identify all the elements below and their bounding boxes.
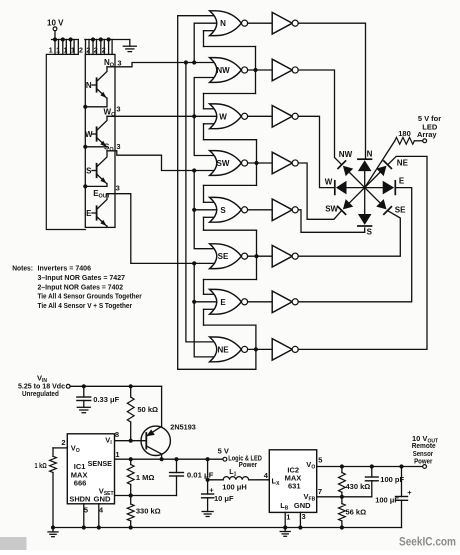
wire S0 to SW gate bottom input [107, 151, 218, 171]
svg-text:NW: NW [339, 150, 353, 159]
svg-text:+: + [407, 488, 412, 497]
svg-text:100 μH: 100 μH [222, 482, 247, 491]
svg-text:3: 3 [117, 58, 121, 67]
svg-text:5: 5 [318, 456, 322, 465]
wire 10V to bus [54, 31, 56, 40]
phototransistor E sensor [96, 206, 98, 219]
svg-text:5: 5 [84, 506, 88, 515]
svg-text:W: W [219, 112, 227, 121]
svg-text:NE: NE [397, 158, 409, 167]
wire IC2 grounds [284, 512, 286, 527]
inverter SW [248, 162, 273, 164]
wire S0 to S mid input and SE top input [194, 171, 217, 249]
wire SW out to W bottom input [204, 139, 257, 141]
capacitor 0.33uF [83, 386, 85, 397]
svg-text:1: 1 [49, 48, 53, 55]
wire IC1 pin5 pin4 to ground rail [83, 504, 85, 528]
svg-text:E: E [86, 209, 92, 218]
ground IC2 [284, 528, 286, 532]
wire LED common to resistor 180 [365, 141, 395, 188]
wire S emitter to rail [85, 184, 107, 187]
svg-text:S: S [86, 166, 92, 175]
svg-text:666: 666 [74, 478, 87, 487]
resistor 50k [130, 386, 132, 397]
svg-text:N: N [86, 81, 92, 90]
wire S inverter to LED S [298, 210, 365, 233]
wire VSET row [115, 495, 177, 497]
svg-text:Power: Power [239, 460, 257, 469]
LED E [365, 187, 383, 189]
wire N inverter to LED N [298, 23, 365, 159]
LED NW [349, 172, 364, 187]
inverter SE [248, 255, 273, 257]
ground top-right [123, 45, 136, 47]
wire sensor pin ticks group 2 [85, 40, 87, 55]
inverter N [248, 22, 273, 24]
svg-text:Array: Array [417, 130, 437, 139]
svg-text:Tie All 4 Sensor V + S Togethe: Tie All 4 Sensor V + S Together [38, 301, 133, 310]
svg-text:1: 1 [286, 512, 290, 521]
NOR gate NW [210, 58, 242, 83]
NOR gate NE [210, 337, 242, 362]
resistor 1M [130, 459, 132, 464]
wire W0 down to SW top input [194, 116, 217, 155]
wire W0 up to NW bottom input [194, 78, 217, 117]
NOR gate W [210, 104, 242, 129]
wire bottom ground rail [53, 527, 402, 529]
wire NW out to N bottom input [204, 46, 256, 48]
wire EOUT to SE gate bottom input [107, 194, 218, 264]
svg-text:330 kΩ: 330 kΩ [136, 507, 161, 516]
LED S [364, 188, 366, 214]
svg-text:SE: SE [395, 206, 406, 215]
wire SW inverter to LED SW [298, 163, 341, 219]
svg-text:1: 1 [71, 48, 75, 55]
svg-text:2: 2 [102, 48, 106, 55]
wire E inverter to LED E [298, 188, 412, 302]
wire W0 to W gate mid input [107, 115, 218, 117]
wire ground bus [85, 39, 130, 41]
watermark corner [0, 537, 27, 550]
svg-text:0.33 μF: 0.33 μF [93, 395, 119, 404]
svg-text:56 kΩ: 56 kΩ [346, 507, 367, 516]
phototransistor S sensor [96, 164, 98, 177]
svg-text:430 kΩ: 430 kΩ [346, 482, 371, 491]
svg-text:1 MΩ: 1 MΩ [136, 473, 155, 482]
wire NW out to W top input [204, 93, 256, 95]
inverter S [248, 209, 273, 211]
svg-text:631: 631 [288, 482, 301, 491]
LED SW [349, 188, 364, 203]
wire NE out to E bottom input [204, 324, 256, 326]
capacitor 100pF [371, 467, 373, 478]
wire E emitter to box bottom [106, 226, 108, 227]
svg-text:7: 7 [318, 487, 322, 496]
wire EOUT to E mid input and NE bottom input [194, 263, 217, 357]
svg-text:SE: SE [218, 252, 229, 261]
capacitor 0.01uF [176, 459, 178, 472]
ground 0.33uF [77, 406, 90, 408]
svg-text:2: 2 [79, 48, 83, 55]
wire SW out to S top input [204, 184, 257, 186]
wire pin2 to 1k [53, 447, 67, 449]
wire outer sensor return box [46, 54, 85, 229]
svg-text:SHDN: SHDN [69, 495, 90, 504]
terminal 10V [53, 27, 57, 31]
IC U1 MAX666 [67, 434, 114, 504]
svg-text:GND: GND [94, 495, 112, 504]
svg-text:3–Input NOR Gates = 7427: 3–Input NOR Gates = 7427 [38, 273, 126, 282]
svg-text:3: 3 [302, 512, 306, 521]
terminal 5V LED array [423, 139, 427, 143]
capacitor 10uF [207, 480, 209, 494]
inductor L1 100uH [223, 477, 248, 480]
svg-text:N: N [220, 19, 226, 28]
svg-text:1 kΩ: 1 kΩ [35, 461, 47, 470]
wire SW output feedback vertical [256, 140, 258, 186]
wire SE inverter to LED SE [298, 211, 400, 256]
inverter NE [248, 348, 273, 350]
svg-text:Inverters = 7406: Inverters = 7406 [38, 264, 92, 273]
ground main left [52, 528, 54, 532]
IC U2 MAX631 [269, 450, 316, 513]
wire N emitter to rail [85, 98, 107, 107]
svg-text:W: W [325, 177, 333, 186]
resistor 56k [339, 504, 346, 521]
svg-text:NE: NE [217, 345, 229, 354]
svg-text:Notes:: Notes: [12, 264, 33, 273]
svg-text:W: W [85, 130, 93, 139]
wire N0 to NW gate top input [107, 63, 218, 67]
svg-text:SW: SW [325, 205, 338, 214]
svg-text:SW: SW [217, 159, 230, 168]
NOR gate S [210, 197, 242, 222]
wire sensor pin ticks group 1 [54, 40, 56, 55]
wire ground bus drop [129, 40, 131, 47]
wire NW inverter to LED NW [298, 70, 341, 164]
capacitor 100uF [401, 467, 403, 497]
svg-text:10 μF: 10 μF [214, 494, 234, 503]
svg-text:Unregulated: Unregulated [22, 389, 59, 398]
svg-text:2N5193: 2N5193 [170, 423, 196, 432]
resistor 430k [341, 467, 343, 473]
terminal 10V out [423, 465, 427, 469]
wire VIN rail [70, 385, 162, 387]
NOR gate N [210, 11, 242, 36]
wire NE inverter to LED NE [298, 156, 427, 349]
svg-text:3: 3 [116, 142, 120, 151]
svg-text:2: 2 [86, 48, 90, 55]
wire W inverter to LED W [298, 116, 335, 187]
phototransistor N sensor [96, 78, 98, 91]
terminal 5V logic [223, 457, 227, 461]
svg-text:5 V: 5 V [218, 446, 229, 455]
LED W [347, 187, 365, 189]
wire SE out to E top input [204, 279, 257, 281]
terminal VIN [66, 384, 70, 388]
phototransistor W sensor [96, 127, 98, 140]
wire N0 down to NE top input [186, 63, 218, 342]
svg-text:E: E [220, 298, 226, 307]
LED SE [365, 188, 380, 203]
svg-text:S: S [367, 228, 373, 237]
resistor 1k [50, 456, 57, 472]
ground 10uF [202, 511, 213, 513]
NOR gate SW [210, 151, 242, 176]
svg-text:8: 8 [115, 430, 119, 439]
resistor 180 LED supply [395, 137, 415, 144]
svg-text:N: N [367, 149, 373, 158]
svg-text:Power: Power [414, 457, 432, 466]
svg-text:10 V: 10 V [47, 19, 64, 28]
svg-text:1: 1 [115, 450, 119, 459]
svg-text:S: S [220, 206, 226, 215]
wire SE out to S bottom input [204, 229, 257, 231]
svg-text:3: 3 [116, 184, 120, 193]
svg-text:Tie All 4 Sensor Grounds Toget: Tie All 4 Sensor Grounds Together [38, 292, 142, 301]
NOR gate E [210, 289, 242, 314]
svg-text:NW: NW [216, 66, 230, 75]
NOR gate SE [210, 244, 242, 269]
wire SE output feedback vertical [256, 230, 258, 279]
LED N [364, 171, 366, 188]
svg-text:100 μF: 100 μF [375, 496, 399, 505]
wire NE output feedback vertical and bottom return [178, 325, 256, 369]
svg-text:1: 1 [64, 48, 68, 55]
wire VIN to transistor emitter [161, 386, 163, 426]
svg-text:1: 1 [56, 48, 60, 55]
svg-text:0.01 μF: 0.01 μF [187, 470, 214, 479]
svg-text:2–Input NOR Gates = 7402: 2–Input NOR Gates = 7402 [38, 282, 124, 291]
inverter W [248, 115, 273, 117]
wire VFB row [317, 496, 372, 498]
inverter E [248, 301, 273, 303]
wire 5V branch down to L1 [207, 459, 209, 480]
wire VO rail 10V out [317, 466, 423, 468]
inverter NW [248, 69, 273, 71]
wire +V bus [52, 39, 79, 41]
node bus junctions [53, 37, 57, 41]
resistor 330k [127, 504, 134, 521]
svg-text:2: 2 [94, 48, 98, 55]
sensor module box [85, 54, 115, 227]
svg-text:50 kΩ: 50 kΩ [137, 405, 158, 414]
wire NE feedback to N top input [178, 16, 218, 370]
wire W emitter to rail [85, 146, 107, 148]
transistor Q1 2N5193 [141, 426, 170, 455]
svg-text:180: 180 [398, 129, 411, 138]
svg-text:E: E [399, 176, 405, 185]
LED NE [365, 172, 380, 187]
svg-text:SENSE: SENSE [88, 459, 112, 468]
svg-text:GND: GND [294, 501, 311, 510]
wire NW output feedback vertical [255, 47, 257, 94]
wire 5V rail (SENSE row) [115, 458, 224, 460]
svg-text:2: 2 [61, 438, 65, 447]
wire N0 up to N mid input [194, 23, 217, 62]
svg-text:SeekIC.com: SeekIC.com [399, 537, 456, 549]
svg-text:3: 3 [116, 105, 120, 114]
